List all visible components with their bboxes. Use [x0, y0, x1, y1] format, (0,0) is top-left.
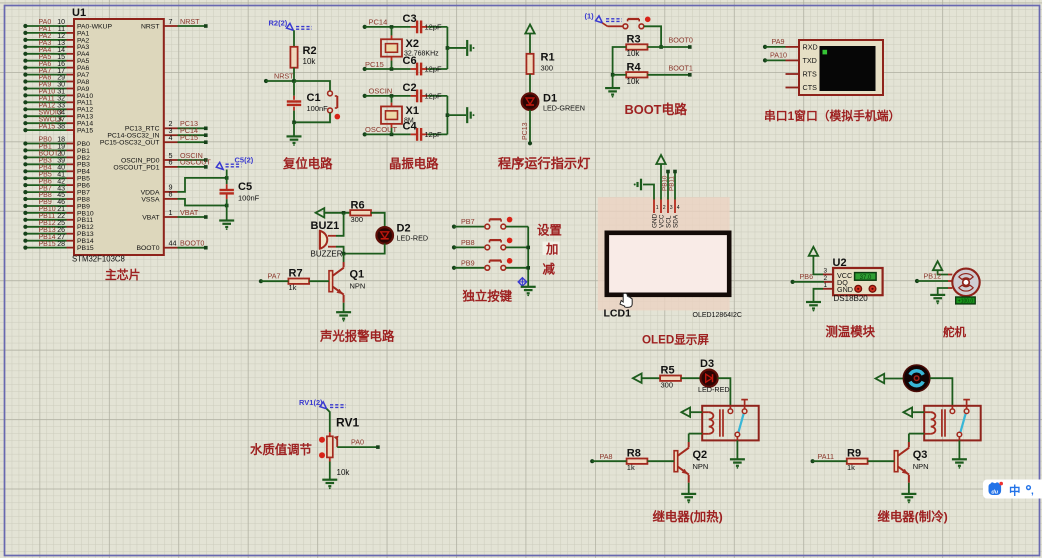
wire NRST node to button top — [294, 81, 330, 91]
svg-text:VCC: VCC — [659, 214, 666, 228]
svg-text:PB10: PB10 — [661, 175, 668, 191]
svg-text:R5: R5 — [661, 365, 675, 377]
svg-text:PA11: PA11 — [39, 96, 55, 103]
caption 加 — [543, 242, 560, 256]
resistor R7 — [288, 279, 309, 284]
wire+pin PA side PA4 pin 14 — [67, 53, 75, 55]
svg-text:R2: R2 — [303, 45, 317, 57]
svg-text:PB8: PB8 — [77, 196, 90, 203]
ground relay RL2 — [952, 458, 967, 460]
wire+pin PA side PA8 pin 29 — [67, 81, 75, 83]
wire R9 to Q3 base — [868, 460, 895, 462]
wire VDDA pin 9 to C5 top — [164, 191, 178, 193]
svg-text:OSCIN: OSCIN — [369, 87, 393, 96]
wire+pin PA side PA9 pin 30 — [67, 88, 75, 90]
wire R1 to D1 — [529, 74, 531, 93]
svg-text:NPN: NPN — [350, 282, 366, 291]
svg-text:VSSA: VSSA — [141, 196, 160, 203]
svg-text:300: 300 — [661, 381, 674, 390]
svg-text:12pF: 12pF — [425, 65, 443, 74]
svg-text:R3: R3 — [627, 34, 641, 46]
svg-text:PA11: PA11 — [818, 452, 835, 461]
power symbol alarm — [316, 208, 325, 217]
wire+pin NRST pin 7 — [164, 25, 178, 27]
svg-text:PC13: PC13 — [522, 122, 529, 140]
wire R7 to Q1 base — [309, 280, 329, 282]
wire PA7 to R7 — [259, 279, 263, 283]
power symbol above R1 — [525, 25, 534, 34]
wire power to R1 — [529, 34, 531, 54]
svg-text:舵机: 舵机 — [943, 325, 966, 339]
wire probe to R2 — [293, 30, 295, 47]
node C5 top junction — [225, 176, 229, 180]
svg-text:100nF: 100nF — [307, 104, 329, 113]
ground RV1 — [322, 479, 337, 481]
wire+pin VBAT pin 1 — [164, 216, 178, 218]
wire power to U2 VCC — [813, 256, 823, 275]
crystal X2 block (C3 C6 32.768kHz) — [363, 25, 367, 29]
wire RV1 wiper to PA0 — [337, 446, 378, 448]
wire PA11 to R9 — [811, 459, 815, 463]
wire PB12 to servo — [915, 279, 919, 283]
svg-text:PB3: PB3 — [39, 158, 52, 165]
RV1 wiper — [334, 436, 339, 441]
node R4 left junction — [611, 73, 615, 77]
svg-text:NPN: NPN — [913, 462, 929, 471]
wire+pin PB side PB12 pin 25 — [67, 226, 75, 228]
ground Q2 — [681, 493, 696, 495]
svg-text:GND: GND — [652, 213, 659, 228]
svg-text:测温模块: 测温模块 — [826, 324, 876, 339]
svg-text:6: 6 — [169, 158, 173, 167]
wire servo gnd — [948, 287, 952, 289]
wire D3 to relay RL1 — [718, 378, 731, 406]
wire R3 to BOOT0 — [648, 46, 690, 48]
svg-text:VBAT: VBAT — [142, 214, 159, 221]
wire relay RL2 common to ground — [958, 440, 960, 459]
IME toolbar — [983, 480, 1042, 499]
svg-text:BOOT电路: BOOT电路 — [625, 102, 688, 117]
svg-text:继电器(制冷): 继电器(制冷) — [878, 509, 948, 524]
resistor R1 — [526, 54, 533, 74]
svg-text:,: , — [1031, 486, 1034, 497]
svg-text:RTS: RTS — [803, 70, 817, 79]
svg-text:NRST: NRST — [274, 72, 294, 81]
svg-text:OSCOUT_PD1: OSCOUT_PD1 — [113, 164, 159, 171]
IC U1 STM32F103C8 chip box — [74, 19, 164, 255]
ground under C5 — [219, 219, 234, 221]
svg-text:BUZZER: BUZZER — [311, 250, 343, 259]
svg-text:PA11: PA11 — [77, 100, 93, 107]
wire Q3 emitter to ground — [908, 483, 910, 494]
svg-text:du: du — [991, 489, 998, 495]
wire+pin PC13 pin 2 — [164, 127, 178, 129]
wire+pin PA side PA12 pin 33 — [67, 108, 75, 110]
push button PB8 — [452, 245, 456, 249]
svg-text:加: 加 — [545, 242, 558, 257]
svg-text:PA3: PA3 — [39, 40, 52, 47]
ground relay RL1 — [730, 458, 745, 460]
svg-text:10k: 10k — [337, 468, 351, 477]
svg-text:10k: 10k — [627, 77, 641, 86]
wire buzzer bottom pin — [328, 246, 336, 248]
node alarm junction — [342, 252, 346, 256]
svg-text:C6: C6 — [403, 55, 417, 67]
wire probe to boot button — [602, 23, 607, 26]
svg-text:2: 2 — [824, 275, 828, 282]
svg-text:独立按键: 独立按键 — [462, 289, 513, 304]
wire R3 left rail — [613, 47, 627, 75]
wire probe to RV1 — [327, 409, 330, 433]
terminal VT1 box — [799, 40, 883, 95]
node C5 bottom junction — [225, 204, 229, 208]
svg-text:PB8: PB8 — [39, 192, 52, 199]
svg-text:BOOT1: BOOT1 — [669, 63, 693, 72]
svg-text:C2: C2 — [403, 82, 417, 94]
svg-text:R7: R7 — [289, 268, 303, 280]
wire+pin PA side PA2 pin 12 — [67, 39, 75, 41]
wire+pin PB side PB7 pin 43 — [67, 191, 75, 193]
svg-text:32: 32 — [57, 96, 65, 103]
svg-text:OLED12864I2C: OLED12864I2C — [693, 312, 742, 319]
wire+pin PB side PB3 pin 39 — [67, 163, 75, 165]
svg-text:中: 中 — [1009, 484, 1021, 498]
wire power to R5 — [642, 377, 661, 379]
svg-text:10k: 10k — [627, 49, 641, 58]
svg-text:C1: C1 — [307, 92, 321, 104]
svg-text:PB1: PB1 — [77, 148, 90, 155]
wire key rail — [527, 227, 529, 287]
wire Q2 collector to relay coil — [689, 433, 703, 435]
wire PA10 to TXD — [763, 58, 767, 62]
wire U2 GND to ground — [823, 288, 833, 290]
svg-text:R1: R1 — [541, 52, 555, 64]
terminal screen — [820, 46, 876, 91]
svg-text:D3: D3 — [700, 358, 714, 370]
wire VSSA pin 8 to C5 bottom — [164, 198, 178, 200]
svg-text:PA10: PA10 — [770, 51, 787, 60]
svg-text:PA15: PA15 — [39, 123, 56, 130]
wire R5 to D3 — [681, 377, 701, 379]
svg-text:继电器(加热): 继电器(加热) — [653, 509, 723, 524]
terminal cursor — [823, 50, 828, 55]
svg-text:R6: R6 — [351, 199, 365, 211]
ground OLED (side) — [640, 179, 642, 191]
svg-text:U2: U2 — [833, 257, 847, 269]
capacitor C5 — [226, 178, 228, 184]
svg-text:1: 1 — [169, 208, 173, 217]
svg-text:37.0: 37.0 — [860, 275, 872, 281]
push button reset — [336, 96, 338, 108]
svg-text:R4: R4 — [627, 61, 642, 73]
svg-text:8: 8 — [169, 190, 173, 199]
svg-text:C4: C4 — [403, 120, 418, 132]
wire+pin PA side PA15 pin 38 — [67, 129, 75, 131]
svg-text:PA0: PA0 — [351, 437, 364, 446]
svg-text:44: 44 — [169, 239, 177, 248]
wire PA9 to RXD — [763, 45, 767, 49]
svg-text:NRST: NRST — [141, 23, 160, 30]
svg-text:PB6: PB6 — [39, 178, 52, 185]
wire+pin PA side PA5 pin 15 — [67, 60, 75, 62]
wire C1 to ground — [293, 122, 295, 136]
ground keys — [521, 286, 536, 288]
wire+pin PA side SWDIO pin 34 — [67, 115, 75, 117]
svg-text:PB12: PB12 — [924, 271, 942, 280]
svg-text:U1: U1 — [72, 7, 86, 19]
wire C5 to ground — [226, 206, 228, 221]
wire+pin PB side PB0 pin 18 — [67, 143, 75, 145]
wire PA8 to R8 — [590, 459, 594, 463]
svg-text:PB15: PB15 — [39, 241, 56, 248]
wire+pin PB side BOOT1 pin 20 — [67, 156, 75, 158]
svg-text:PB11: PB11 — [77, 217, 93, 224]
wire Q1 emitter to ground — [343, 303, 345, 312]
svg-text:LED-RED: LED-RED — [397, 234, 429, 243]
wire buzzer top pin — [328, 235, 336, 237]
temp module U2 box — [833, 268, 883, 295]
svg-text:程序运行指示灯: 程序运行指示灯 — [498, 155, 590, 171]
wire+pin PA side PA3 pin 13 — [67, 46, 75, 48]
svg-text:PB7: PB7 — [461, 217, 475, 226]
power symbol fan — [876, 374, 885, 383]
transistor Q1 — [329, 271, 333, 292]
power symbol relay RL1 coil — [681, 408, 690, 417]
svg-text:PA8: PA8 — [39, 75, 52, 82]
svg-text:PC15-OSC32_OUT: PC15-OSC32_OUT — [100, 140, 160, 147]
svg-text:PB6: PB6 — [77, 183, 90, 190]
svg-text:4: 4 — [169, 133, 173, 142]
wire power to servo — [938, 270, 948, 274]
svg-text:Q3: Q3 — [913, 449, 928, 461]
wire+pin PC15 pin 4 — [164, 141, 178, 143]
resistor R4 — [626, 72, 647, 77]
resistor R2 — [290, 47, 297, 68]
U2 buttons — [855, 285, 862, 292]
wire+pin PB side PB8 pin 45 — [67, 198, 75, 200]
svg-text:PB11: PB11 — [39, 213, 56, 220]
svg-text:3: 3 — [670, 205, 673, 211]
svg-text:RV1(2): RV1(2) — [299, 398, 323, 407]
svg-text:1: 1 — [656, 205, 659, 211]
wire+pin PA side PA10 pin 31 — [67, 94, 75, 96]
ground U2 — [806, 301, 821, 303]
wire D2 to bottom junction — [344, 244, 385, 254]
svg-text:11: 11 — [58, 26, 65, 33]
svg-text:19: 19 — [57, 144, 65, 151]
wire junction to Q1 collector — [343, 254, 345, 262]
svg-text:PB8: PB8 — [461, 238, 475, 247]
svg-text:串口1窗口（模拟手机端）: 串口1窗口（模拟手机端） — [764, 109, 900, 123]
svg-text:4: 4 — [677, 205, 680, 211]
power symbol R5 — [633, 374, 642, 383]
svg-text:PB3: PB3 — [77, 162, 90, 169]
resistor R3 — [626, 44, 647, 49]
push button BOOT — [628, 18, 640, 20]
diode D3 LED-RED — [701, 370, 718, 387]
svg-text:7: 7 — [169, 17, 173, 26]
svg-text:PA6: PA6 — [77, 65, 90, 72]
wire R8 to Q2 base — [647, 460, 674, 462]
wire+pin PB side PB5 pin 41 — [67, 177, 75, 179]
motor servo body — [952, 269, 979, 296]
potentiometer RV1 body — [327, 436, 333, 457]
svg-text:PB1: PB1 — [39, 144, 52, 151]
svg-text:R8: R8 — [627, 447, 641, 459]
wire PB6 to DQ — [791, 280, 795, 284]
wire+pin PB side PB11 pin 22 — [67, 219, 75, 221]
svg-text:12pF: 12pF — [425, 91, 443, 100]
wire+pin BOOT0 pin 44 — [164, 247, 178, 249]
RV1 buttons — [319, 437, 325, 443]
transistor Q3 — [894, 451, 898, 472]
svg-text:PB11: PB11 — [668, 176, 675, 191]
resistor R8 — [627, 459, 648, 464]
svg-text:水质值调节: 水质值调节 — [250, 442, 312, 457]
wire+pin PB side PB1 pin 19 — [67, 149, 75, 151]
svg-text:晶振电路: 晶振电路 — [389, 156, 439, 171]
wire+pin PB side PB15 pin 28 — [67, 247, 75, 249]
power symbol relay RL2 coil — [903, 408, 912, 417]
resistor R6 — [350, 210, 371, 215]
svg-text:PC15: PC15 — [180, 133, 198, 142]
wire R4 left to ground — [613, 74, 627, 76]
power symbol servo — [933, 261, 942, 270]
svg-text:34: 34 — [57, 109, 65, 116]
wire+pin PA side PA0 pin 10 — [67, 25, 75, 27]
svg-text:LCD1: LCD1 — [604, 308, 632, 320]
svg-text:12pF: 12pF — [425, 130, 443, 139]
OLED panel background — [598, 197, 730, 310]
svg-text:TXD: TXD — [803, 56, 817, 65]
wire+pin PB side PB14 pin 27 — [67, 240, 75, 242]
svg-text:10k: 10k — [303, 57, 317, 66]
relay RL2 (cooling) — [924, 406, 981, 441]
svg-text:设置: 设置 — [537, 223, 562, 238]
motor fan — [903, 365, 929, 391]
wire+pin PB side PB13 pin 26 — [67, 233, 75, 235]
svg-text:BOOT0: BOOT0 — [669, 36, 693, 45]
svg-text:OLED显示屏: OLED显示屏 — [642, 334, 709, 347]
push button PB9 — [452, 266, 456, 270]
push button PB7 — [452, 225, 456, 229]
svg-text:1k: 1k — [289, 283, 297, 292]
svg-text:BOOT0: BOOT0 — [136, 245, 159, 252]
svg-text:X1: X1 — [406, 105, 419, 117]
svg-text:OSCOUT: OSCOUT — [180, 158, 211, 167]
svg-text:VDDA: VDDA — [141, 189, 160, 196]
wire power to R6 — [324, 212, 350, 214]
wire+pin PB side PB10 pin 21 — [67, 212, 75, 214]
svg-text:PA1: PA1 — [77, 30, 90, 37]
diode D1 LED-GREEN — [522, 93, 539, 110]
wire OLED SCL — [667, 172, 669, 200]
node C1 bottom junction — [292, 121, 296, 125]
svg-text:PA15: PA15 — [77, 128, 93, 135]
wire boot button to BOOT0 node — [644, 26, 661, 47]
wire D1 to PC13 node — [529, 110, 531, 143]
wire+pin PC14 pin 3 — [164, 134, 178, 136]
svg-text:PA1: PA1 — [39, 26, 52, 33]
resistor R5 — [660, 376, 681, 381]
wire R6 to D2 — [371, 213, 385, 228]
resistor R9 — [847, 459, 868, 464]
wire R2 to NRST node — [293, 68, 295, 81]
svg-text:复位电路: 复位电路 — [282, 156, 333, 171]
wire OLED GND to ground — [643, 185, 654, 200]
wire+pin PB side PB4 pin 40 — [67, 170, 75, 172]
svg-text:X2: X2 — [406, 38, 419, 50]
node BOOT0 junction — [659, 45, 663, 49]
wire+pin OSCIN pin 5 — [164, 159, 178, 161]
probe C5(2) — [216, 162, 223, 169]
svg-text:42: 42 — [57, 178, 65, 185]
svg-text:Q2: Q2 — [693, 449, 708, 461]
wire OLED VCC power — [660, 164, 662, 200]
svg-text:RXD: RXD — [803, 43, 818, 52]
buzzer BUZ1 — [319, 230, 321, 249]
wire+pin PA side PA1 pin 11 — [67, 32, 75, 34]
svg-text:SCL: SCL — [666, 215, 673, 228]
wire+pin PA side PA11 pin 32 — [67, 101, 75, 103]
svg-text:PB13: PB13 — [39, 227, 56, 234]
node PC13 terminal — [528, 141, 532, 145]
wire+pin PB side PB9 pin 46 — [67, 205, 75, 207]
svg-text:C5(2): C5(2) — [235, 156, 254, 165]
wire+pin PA side PA6 pin 16 — [67, 67, 75, 69]
node origin marker — [518, 278, 526, 286]
svg-text:C5: C5 — [238, 181, 252, 193]
svg-text:12pF: 12pF — [425, 22, 443, 31]
wire+pin PA side SWCLK pin 37 — [67, 122, 75, 124]
svg-text:28: 28 — [57, 241, 65, 248]
svg-text:DS18B20: DS18B20 — [834, 294, 869, 303]
svg-text:3: 3 — [824, 267, 828, 274]
svg-text:R9: R9 — [847, 447, 861, 459]
OLED screen frame — [607, 233, 729, 295]
svg-text:PA8: PA8 — [77, 79, 90, 86]
wire RV1 to ground — [329, 457, 331, 461]
svg-text:1k: 1k — [627, 463, 635, 472]
svg-text:PA7: PA7 — [268, 272, 281, 281]
relay RL1 (heating) — [702, 406, 759, 441]
svg-text:13: 13 — [57, 40, 65, 47]
svg-text:PA6: PA6 — [39, 61, 52, 68]
svg-text:Q1: Q1 — [350, 269, 365, 281]
power symbol U2 — [809, 247, 818, 256]
wire OLED SDA — [674, 172, 676, 200]
svg-text:PA3: PA3 — [77, 44, 90, 51]
svg-text:PB9: PB9 — [461, 258, 475, 267]
U2 LCD readout — [855, 273, 877, 281]
svg-text:BOOT0: BOOT0 — [180, 239, 204, 248]
svg-text:PA13: PA13 — [77, 114, 93, 121]
transistor Q2 — [674, 451, 678, 472]
wire fan to relay RL2 — [930, 378, 953, 406]
svg-text:300: 300 — [351, 215, 364, 224]
svg-text:300: 300 — [541, 64, 554, 73]
svg-text:PC14-OSC32_IN: PC14-OSC32_IN — [107, 133, 159, 140]
svg-text:PB13: PB13 — [77, 231, 94, 238]
wire button bottom to C1 bottom — [294, 113, 330, 123]
svg-text:VBAT: VBAT — [180, 208, 199, 217]
svg-text:1k: 1k — [847, 463, 855, 472]
ground reset circuit — [287, 135, 302, 137]
OLED pins GND VCC SCL SDA — [653, 200, 655, 214]
svg-text:LED-RED: LED-RED — [698, 385, 730, 394]
wire+pin OSCOUT pin 6 — [164, 166, 178, 168]
wire power to fan — [884, 378, 903, 380]
